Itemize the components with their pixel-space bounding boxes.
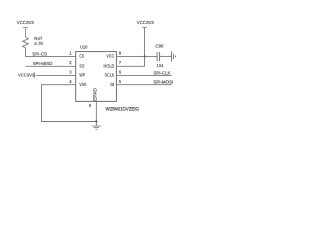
svg-text:EPAD: EPAD — [93, 88, 99, 101]
svg-text:U10: U10 — [80, 45, 88, 50]
svg-text:VSS: VSS — [79, 82, 86, 87]
svg-text:SO: SO — [79, 63, 84, 68]
svg-text:SPI-CS: SPI-CS — [32, 51, 47, 56]
svg-text:104: 104 — [157, 63, 165, 68]
svg-text:WP: WP — [79, 73, 85, 78]
svg-text:VCC: VCC — [106, 54, 115, 59]
svg-text:CS: CS — [79, 54, 84, 59]
svg-text:VCC3V3: VCC3V3 — [137, 20, 155, 25]
svg-text:}: } — [34, 73, 36, 79]
svg-text:SPI-MOSI: SPI-MOSI — [153, 80, 173, 85]
svg-text:SPI-MISO: SPI-MISO — [33, 61, 53, 66]
svg-text:R47: R47 — [34, 36, 43, 41]
svg-text:SI: SI — [110, 82, 114, 87]
svg-text:VCC3V3: VCC3V3 — [17, 20, 35, 25]
svg-text:VCC3V3: VCC3V3 — [18, 72, 35, 77]
svg-text:SCLK: SCLK — [105, 73, 115, 78]
svg-text:W25N01GVZEIG: W25N01GVZEIG — [106, 107, 140, 113]
svg-text:4.7K: 4.7K — [34, 41, 43, 46]
svg-text:SPI-CLK: SPI-CLK — [153, 70, 170, 75]
svg-text:HOLD: HOLD — [104, 63, 115, 68]
svg-text:C90: C90 — [155, 44, 164, 49]
